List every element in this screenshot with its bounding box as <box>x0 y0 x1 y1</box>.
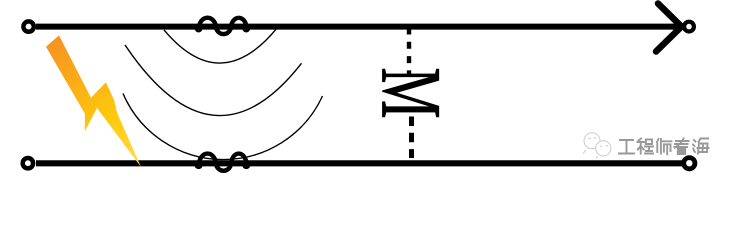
char 程 <box>638 139 654 154</box>
inductor coil L2 (bottom line) <box>199 154 247 171</box>
terminal bottom-right <box>684 158 695 169</box>
top wire <box>36 24 677 30</box>
coupling arc 3 (large) <box>123 94 323 160</box>
dashed line lower segment <box>409 117 414 159</box>
watermark text 工程师看海 <box>619 139 709 155</box>
watermark logo <box>583 133 611 159</box>
bottom wire <box>36 160 682 166</box>
coupling arc 1 (small) <box>164 28 277 63</box>
coupling arc 2 (middle) <box>125 45 302 116</box>
dashed line upper segment <box>407 28 411 76</box>
inductor coil L1 (top line) <box>199 18 247 34</box>
terminal top-right <box>684 22 694 32</box>
lightning bolt (strike) <box>46 35 141 167</box>
svg-text:M: M <box>364 67 459 118</box>
char 工 <box>619 140 634 154</box>
arrowhead on top wire <box>656 4 682 52</box>
char 海 <box>693 139 709 154</box>
char 看 <box>675 139 689 155</box>
terminal top-left <box>23 21 33 31</box>
terminal bottom-left <box>23 158 33 168</box>
char 师 <box>657 139 672 154</box>
